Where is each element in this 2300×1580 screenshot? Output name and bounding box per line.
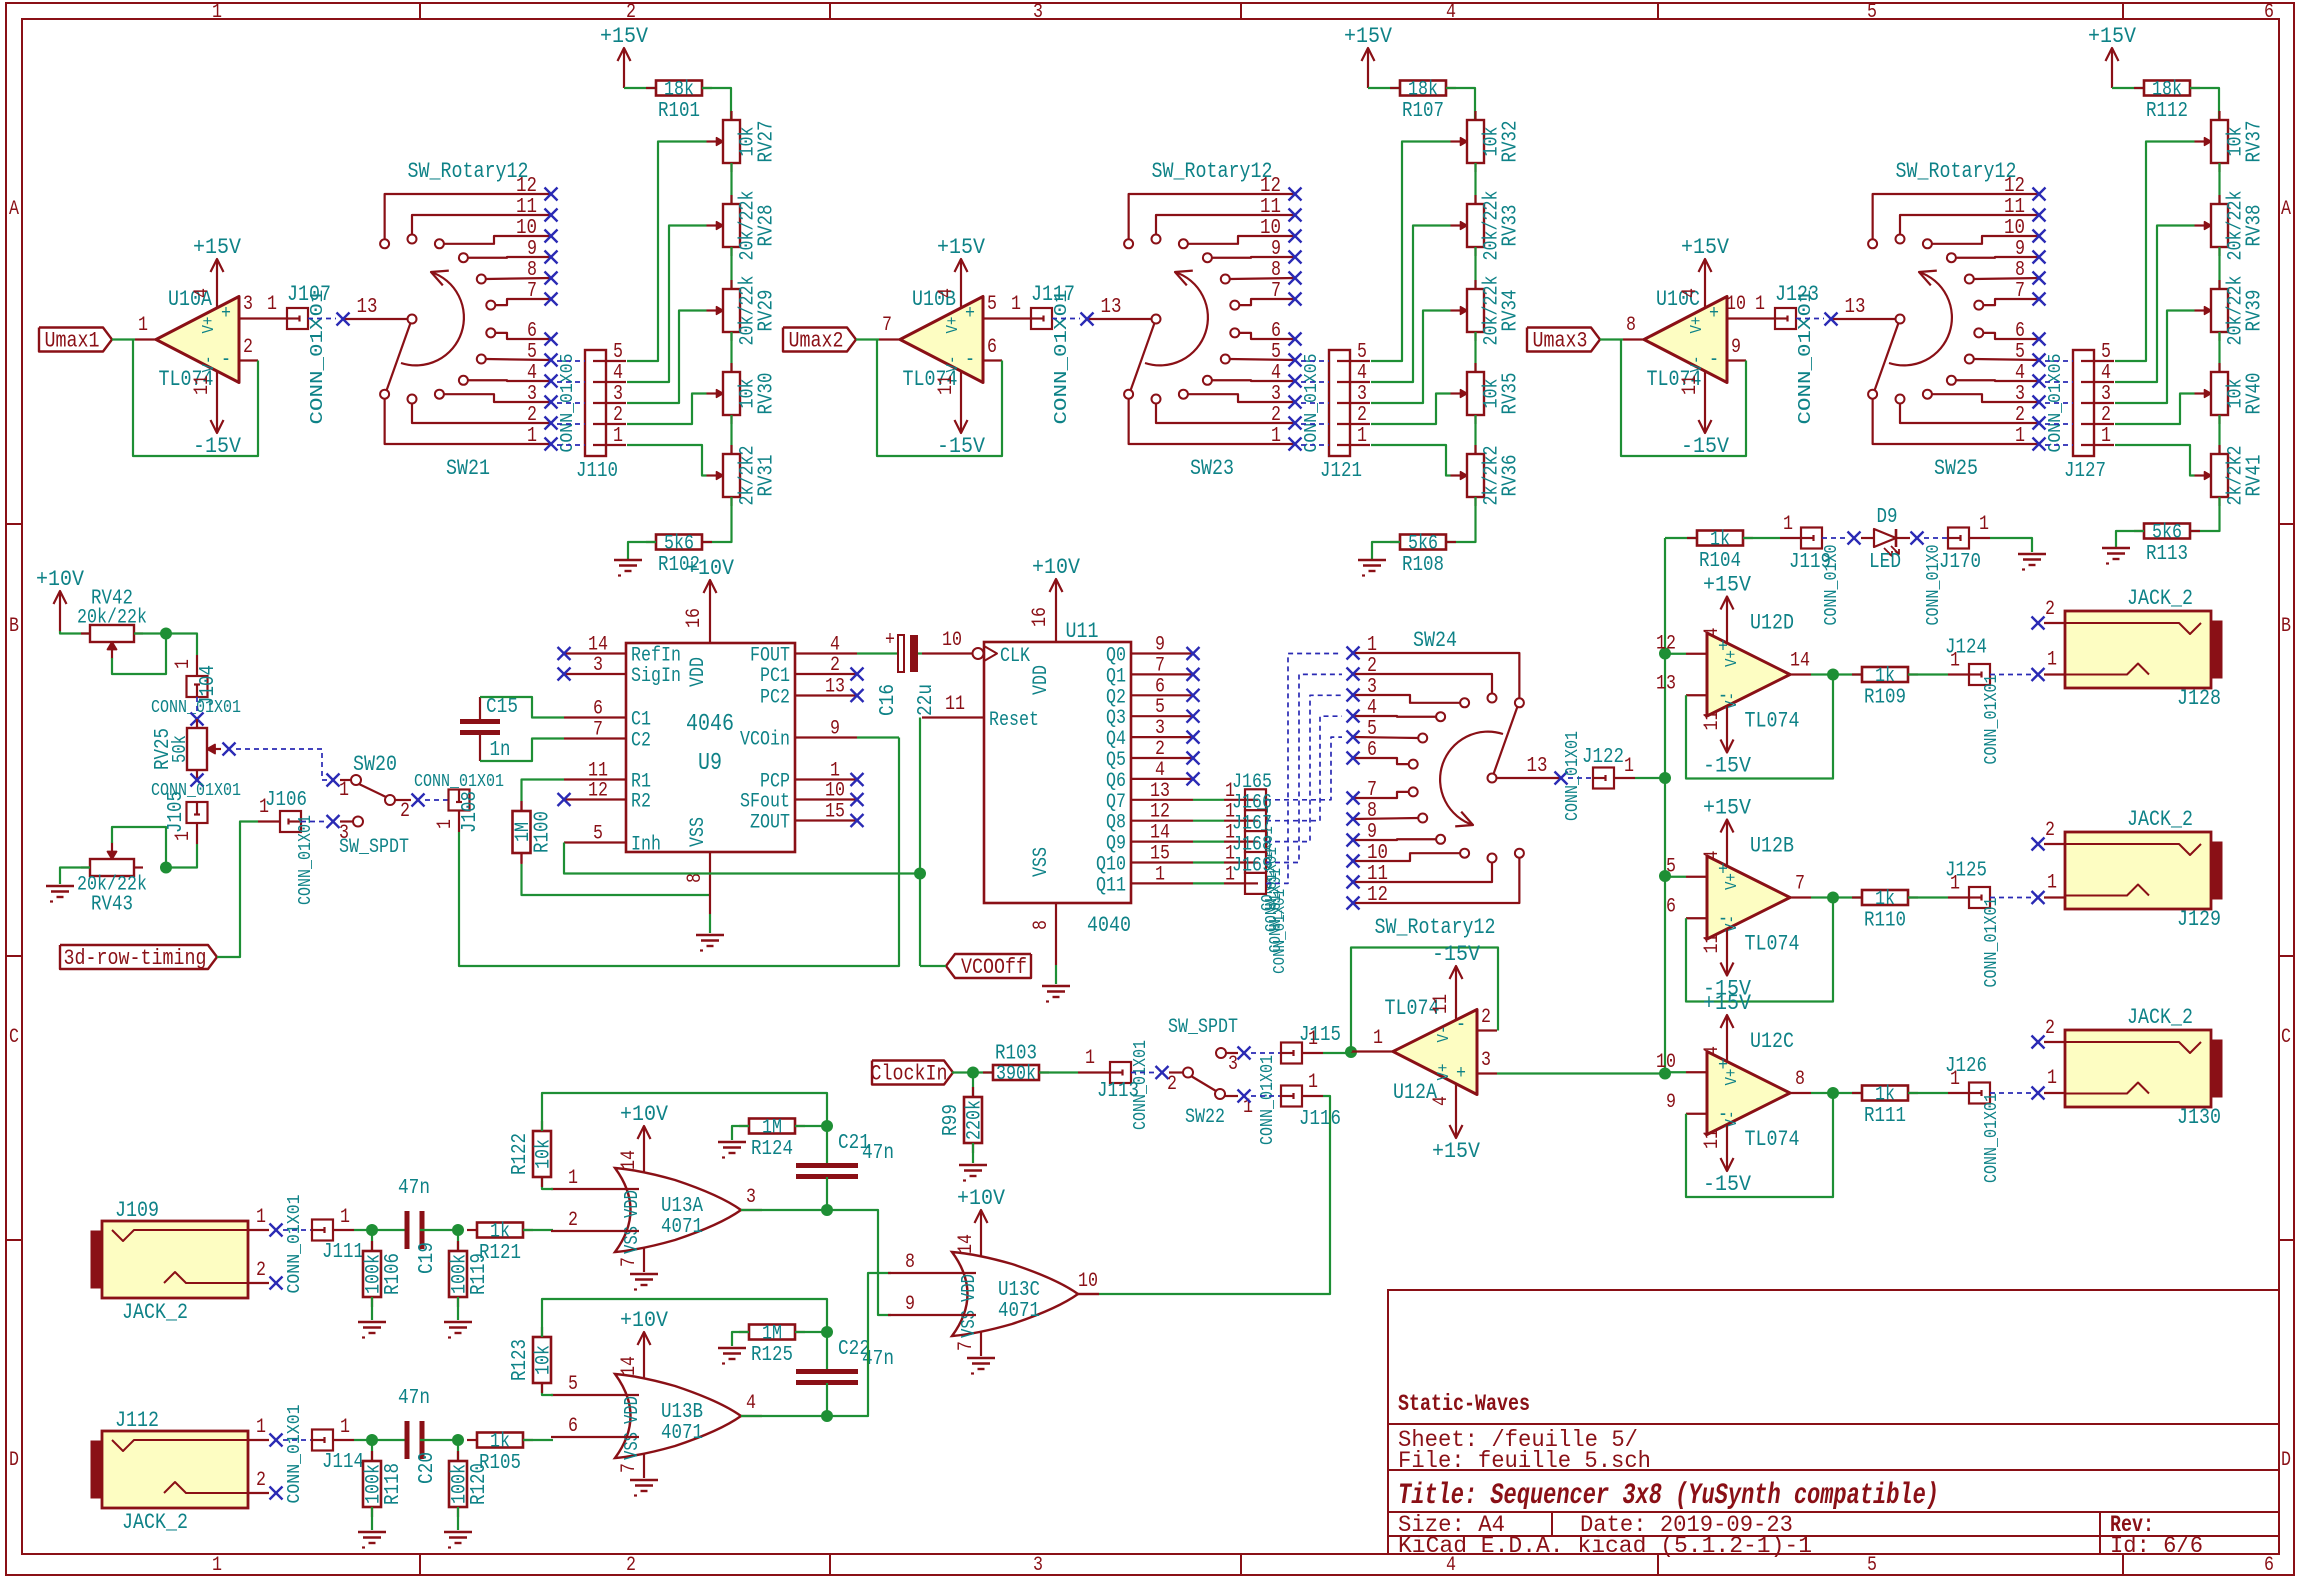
svg-text:SigIn: SigIn	[631, 665, 681, 688]
svg-text:R109: R109	[1864, 687, 1906, 710]
wire VSS to ground	[709, 914, 711, 933]
wire R125 to C22	[795, 1331, 827, 1333]
svg-text:+15V: +15V	[600, 24, 649, 49]
U11 pin Q5	[1131, 757, 1193, 759]
svg-text:3: 3	[613, 383, 623, 406]
hierarchical label Umax1	[39, 328, 112, 352]
svg-text:C20: C20	[416, 1452, 439, 1484]
svg-text:5: 5	[987, 293, 997, 316]
svg-text:7: 7	[1155, 654, 1165, 677]
svg-text:JACK_2: JACK_2	[2127, 807, 2193, 832]
svg-text:C22: C22	[838, 1338, 870, 1361]
svg-text:Q4: Q4	[1106, 728, 1126, 751]
svg-text:Q3: Q3	[1106, 707, 1126, 730]
svg-text:4: 4	[1701, 628, 1724, 638]
connector J121 CONN_01X05	[1329, 350, 1350, 456]
svg-text:Q7: Q7	[1106, 791, 1126, 814]
svg-text:SW21: SW21	[446, 456, 490, 481]
SW25 pin 5 no-connect	[2033, 354, 2046, 367]
svg-text:1: 1	[2015, 425, 2025, 448]
svg-text:J106: J106	[265, 789, 307, 812]
svg-text:1: 1	[1783, 513, 1793, 536]
svg-text:+10V: +10V	[686, 556, 735, 581]
SW24 pin 2 no-connect	[1347, 668, 1360, 681]
svg-text:JACK_2: JACK_2	[122, 1300, 188, 1325]
svg-text:R107: R107	[1402, 100, 1444, 123]
svg-text:2: 2	[527, 404, 537, 427]
wire C22 to output	[826, 1383, 828, 1416]
no-connect RV25 wiper	[223, 743, 236, 756]
SW25 rotation arc arrow	[1889, 272, 1952, 365]
svg-text:4: 4	[1367, 697, 1377, 720]
SW22 pin 1 lower throw	[1225, 1095, 1238, 1097]
U12B feedback loop	[1811, 896, 1833, 898]
connector J126 CONN_01X01	[1969, 1083, 1990, 1104]
svg-text:RV37: RV37	[2244, 121, 2267, 163]
U12A pin 2 feedback	[1477, 1029, 1497, 1031]
svg-text:U12B: U12B	[1750, 834, 1794, 859]
wire RV43 wiper loop	[112, 827, 166, 868]
U11 pin 8 VSS to ground	[1055, 903, 1057, 965]
potentiometer RV35 10k	[1474, 363, 1476, 372]
rotary switch SW25 contacts	[1868, 390, 1877, 399]
SW23 pin 6 no-connect	[1289, 333, 1302, 346]
svg-text:Q9: Q9	[1106, 833, 1126, 856]
connector J127 CONN_01X05	[2073, 350, 2094, 456]
svg-text:3: 3	[1481, 1049, 1491, 1072]
U9 pin 8 VSS	[709, 852, 711, 914]
U11 pin Q6	[1131, 778, 1193, 780]
svg-text:J127: J127	[2064, 460, 2106, 483]
connector J124 CONN_01X01	[1969, 664, 1990, 685]
wire op-amp bus vertical	[1664, 538, 1666, 1074]
potentiometer RV36 2k/2k2	[1474, 445, 1476, 454]
svg-text:C: C	[2281, 1026, 2291, 1049]
svg-text:1: 1	[1011, 293, 1021, 316]
svg-text:CONN_01X01: CONN_01X01	[151, 698, 241, 718]
resistor R106 100k	[371, 1230, 373, 1251]
potentiometer RV43 20k/22k	[81, 866, 90, 868]
ground	[614, 559, 642, 561]
svg-text:1M: 1M	[762, 1323, 782, 1346]
SW21 pin 1 no-connect	[545, 438, 558, 451]
svg-text:VDD: VDD	[687, 657, 710, 687]
svg-text:1: 1	[172, 659, 195, 669]
ground U9	[696, 934, 724, 936]
ground R124	[718, 1141, 746, 1143]
rotary switch SW23 contacts	[1124, 390, 1133, 399]
resistor R100 1M	[522, 780, 565, 802]
svg-text:J170: J170	[1939, 551, 1981, 574]
resistor R111 1k	[1833, 1092, 1862, 1094]
wire pot chain segment	[2218, 247, 2220, 289]
svg-text:3: 3	[1367, 676, 1377, 699]
U12B output pin 7	[1790, 896, 1811, 898]
svg-text:12: 12	[1150, 801, 1170, 824]
connector J115 CONN_01X01	[1251, 1052, 1281, 1054]
svg-text:10: 10	[825, 780, 845, 803]
svg-text:5k6: 5k6	[2152, 522, 2182, 545]
U10C input pin 8	[1623, 338, 1644, 340]
diode D9 LED	[1822, 537, 1847, 539]
svg-text:C15: C15	[486, 696, 518, 719]
svg-text:18k: 18k	[1408, 79, 1438, 102]
potentiometer RV25 50k	[187, 728, 207, 770]
SW21 common pivot pin 13	[408, 315, 417, 324]
U13A input pin 1	[551, 1188, 639, 1190]
wires J-pins to pot wipers	[1371, 142, 1451, 362]
J130 pin 1	[2044, 1092, 2065, 1094]
svg-text:4: 4	[2015, 362, 2025, 385]
wires J-pins to pot wipers	[627, 142, 707, 362]
svg-text:7: 7	[1795, 873, 1805, 896]
svg-text:6: 6	[1155, 675, 1165, 698]
SW23 pin 8 no-connect	[1289, 272, 1302, 285]
U13A output pin 3	[741, 1209, 762, 1211]
svg-text:SW24: SW24	[1413, 628, 1457, 653]
svg-text:3d-row-timing: 3d-row-timing	[64, 946, 207, 971]
svg-text:J130: J130	[2177, 1105, 2221, 1130]
svg-text:5: 5	[1867, 1, 1877, 24]
svg-text:2: 2	[613, 404, 623, 427]
svg-text:4: 4	[1679, 288, 1702, 298]
connector J104 CONN_01X01	[196, 655, 198, 676]
op-amp U12A (TL074)	[1393, 1010, 1477, 1095]
svg-text:D9: D9	[1877, 506, 1898, 529]
svg-text:220k: 220k	[964, 1100, 987, 1140]
svg-text:J115: J115	[1299, 1024, 1341, 1047]
svg-text:J169: J169	[1232, 854, 1272, 877]
wire U13A output to U13C pin 9	[741, 1210, 891, 1315]
op-amp U10C (TL074)	[1644, 297, 1727, 383]
SW25 pin 10 no-connect	[2033, 230, 2046, 243]
svg-text:VSS: VSS	[1030, 847, 1053, 877]
svg-text:SW_SPDT: SW_SPDT	[1168, 1016, 1238, 1039]
SW23 pin 7 no-connect	[1289, 293, 1302, 306]
svg-text:11: 11	[191, 375, 214, 395]
svg-text:R108: R108	[1402, 554, 1444, 577]
wire pot chain segment	[730, 163, 732, 204]
svg-text:9: 9	[1155, 634, 1165, 657]
svg-text:4: 4	[1701, 851, 1724, 861]
svg-text:J112: J112	[115, 1408, 159, 1433]
SW24 pin 3 no-connect	[1347, 689, 1360, 702]
svg-text:V+: V+	[944, 317, 963, 334]
svg-text:Q8: Q8	[1106, 812, 1126, 835]
power +15V for R101	[623, 48, 625, 88]
SW25 pin 9 no-connect	[2033, 251, 2046, 264]
wire VCOin to vertical	[857, 736, 899, 738]
svg-text:6: 6	[987, 336, 997, 359]
svg-text:CONN_01X01: CONN_01X01	[1131, 1040, 1151, 1130]
svg-text:J167: J167	[1232, 813, 1272, 836]
svg-text:R118: R118	[382, 1463, 405, 1505]
wire R111 to J126	[1908, 1092, 1948, 1094]
svg-text:Q0: Q0	[1106, 645, 1126, 668]
svg-text:5k6: 5k6	[664, 533, 694, 556]
svg-text:1: 1	[527, 425, 537, 448]
connector J165 CONN_01X01	[1193, 799, 1224, 801]
svg-text:-15V: -15V	[1703, 1172, 1752, 1197]
svg-text:2: 2	[626, 1554, 636, 1577]
svg-text:2: 2	[2045, 598, 2055, 621]
svg-text:J108: J108	[459, 791, 482, 833]
wire pot chain segment	[2218, 163, 2220, 204]
svg-text:CONN_01X01: CONN_01X01	[1982, 898, 2002, 988]
svg-text:1: 1	[1155, 863, 1165, 886]
svg-text:+: +	[965, 302, 975, 324]
potentiometer RV39 20k/22k	[2218, 280, 2220, 289]
U11 pin Q3	[1131, 715, 1193, 717]
svg-text:6: 6	[593, 698, 603, 721]
svg-text:4: 4	[935, 288, 958, 298]
svg-text:12: 12	[588, 780, 608, 803]
SW21 pin 6 no-connect	[545, 333, 558, 346]
resistor R118 100k	[371, 1440, 373, 1461]
U12C input pin 10	[1686, 1071, 1707, 1073]
potentiometer RV31 2k/2k2	[730, 445, 732, 454]
U13B input pin 6	[551, 1436, 639, 1438]
dashed link J169 to SW24 contact 1	[1266, 654, 1342, 884]
svg-text:9: 9	[1666, 1091, 1676, 1114]
svg-text:2: 2	[1357, 404, 1367, 427]
connector J114 CONN_01X01	[283, 1439, 312, 1441]
U13B input pin 5	[551, 1394, 639, 1396]
U12B power pin 4 +15V	[1726, 846, 1728, 866]
wire Umax1 to op-amp input	[112, 338, 135, 340]
U13B power pin 7 VSS	[643, 1453, 645, 1478]
svg-text:J110: J110	[576, 460, 618, 483]
svg-text:-: -	[965, 349, 975, 372]
resistor R120 100k	[457, 1440, 459, 1461]
svg-text:VDD: VDD	[621, 1396, 643, 1424]
SW21 pin 5 no-connect	[545, 354, 558, 367]
dashed link J107 to SW21	[308, 318, 336, 320]
svg-text:SW_Rotary12: SW_Rotary12	[1152, 159, 1273, 184]
svg-text:RV43: RV43	[91, 894, 133, 917]
svg-text:SW_SPDT: SW_SPDT	[339, 836, 409, 859]
dashed links SW23 to J121	[1301, 360, 1329, 362]
U11 pin Q1	[1131, 673, 1193, 675]
svg-text:VDD: VDD	[1030, 665, 1053, 695]
svg-text:+15V: +15V	[1681, 235, 1730, 260]
svg-text:14: 14	[1150, 822, 1170, 845]
svg-text:RV40: RV40	[2244, 373, 2267, 415]
wire U13C output	[1078, 1293, 1099, 1295]
svg-text:RV30: RV30	[756, 373, 779, 415]
svg-text:CONN_01X01: CONN_01X01	[1271, 889, 1290, 974]
svg-text:4: 4	[613, 362, 623, 385]
svg-text:9: 9	[1731, 336, 1741, 359]
wire C22 top	[826, 1332, 828, 1371]
svg-text:Umax3: Umax3	[1533, 329, 1588, 354]
svg-text:390k: 390k	[996, 1063, 1036, 1086]
svg-text:U12C: U12C	[1750, 1029, 1794, 1054]
svg-text:V+: V+	[1723, 1069, 1742, 1086]
svg-text:3: 3	[1357, 383, 1367, 406]
U10B power pin 11 -15V	[960, 371, 962, 393]
svg-text:J166: J166	[1232, 792, 1272, 815]
svg-text:SW25: SW25	[1934, 456, 1978, 481]
svg-text:Umax2: Umax2	[789, 329, 844, 354]
svg-text:C19: C19	[416, 1242, 439, 1274]
svg-text:22u: 22u	[915, 684, 938, 716]
connector J167 CONN_01X01	[1193, 840, 1224, 842]
svg-text:VSS: VSS	[687, 817, 710, 847]
connector J111 CONN_01X01	[283, 1229, 312, 1231]
svg-text:1: 1	[1085, 1047, 1095, 1070]
svg-text:9: 9	[527, 238, 537, 261]
svg-text:4: 4	[191, 288, 214, 298]
svg-text:R103: R103	[995, 1043, 1037, 1066]
svg-text:4: 4	[1155, 759, 1165, 782]
svg-text:-15V: -15V	[1432, 942, 1481, 967]
svg-text:3: 3	[1271, 383, 1281, 406]
wire U10A output to J107	[260, 317, 287, 319]
svg-text:14: 14	[618, 1356, 641, 1376]
svg-text:U13A: U13A	[661, 1195, 703, 1218]
svg-text:6: 6	[527, 320, 537, 343]
svg-text:VDD: VDD	[621, 1190, 643, 1218]
svg-text:1: 1	[1624, 755, 1634, 778]
wire U9 Inh loop	[564, 843, 920, 874]
U9 pin 13 PC2	[795, 694, 857, 696]
svg-text:11: 11	[1367, 863, 1388, 886]
U10A power pin 11 -15V	[216, 371, 218, 393]
SW21 pin 8 no-connect	[545, 272, 558, 285]
svg-text:14: 14	[1790, 650, 1810, 673]
svg-text:CONN_01X01: CONN_01X01	[308, 290, 328, 425]
SW21 pin 10 no-connect	[545, 230, 558, 243]
U12C feedback loop	[1811, 1092, 1833, 1094]
U11 pin 11 Reset	[922, 716, 984, 718]
svg-text:6: 6	[1367, 739, 1377, 762]
svg-text:2: 2	[2045, 819, 2055, 842]
svg-text:2: 2	[400, 800, 410, 823]
svg-text:R113: R113	[2146, 543, 2188, 566]
capacitor C20 47n	[405, 1421, 410, 1459]
svg-text:4046: 4046	[686, 711, 734, 738]
potentiometer RV37 10k	[2218, 111, 2220, 120]
svg-text:6: 6	[2015, 320, 2025, 343]
wire pot chain segment	[1474, 247, 1476, 289]
SW24 pin 5 no-connect	[1347, 731, 1360, 744]
svg-text:13: 13	[1101, 296, 1122, 319]
svg-text:R99: R99	[940, 1104, 963, 1136]
svg-text:+15V: +15V	[1703, 573, 1752, 598]
svg-text:+15V: +15V	[937, 235, 986, 260]
U12C power pin 11 -15V	[1726, 1125, 1728, 1145]
svg-text:J122: J122	[1582, 746, 1624, 769]
SW22 pin 3 upper throw	[1216, 1048, 1226, 1058]
svg-text:1: 1	[267, 293, 277, 316]
svg-text:A: A	[9, 198, 19, 221]
svg-text:CONN_01X01: CONN_01X01	[1052, 290, 1072, 425]
connector J110 CONN_01X05	[585, 350, 606, 456]
svg-text:2: 2	[2015, 404, 2025, 427]
svg-text:1k: 1k	[1875, 888, 1895, 911]
svg-text:10k: 10k	[533, 1139, 556, 1169]
svg-text:2: 2	[1481, 1006, 1491, 1029]
SW24 common pivot pin 13	[1488, 774, 1497, 783]
svg-text:TL074: TL074	[1745, 709, 1800, 734]
svg-text:5: 5	[2101, 341, 2111, 364]
svg-text:+: +	[885, 629, 895, 652]
wire C20 to R105	[420, 1439, 455, 1441]
svg-text:10: 10	[1656, 1051, 1676, 1074]
SW23 pin 2 no-connect	[1289, 417, 1302, 430]
potentiometer RV30 10k	[730, 363, 732, 372]
no-connect RV25 top	[191, 713, 204, 726]
svg-text:5: 5	[568, 1373, 578, 1396]
U9 pin 9 VCOin	[795, 736, 857, 738]
svg-text:C: C	[9, 1026, 19, 1049]
svg-text:R100: R100	[532, 811, 555, 853]
resistor R103 390k	[983, 1071, 993, 1073]
svg-text:V+: V+	[200, 317, 219, 334]
svg-text:V-: V-	[1688, 356, 1707, 373]
dashed link J125 to jack	[1990, 897, 2032, 899]
wire U13B output to U13C pin 8	[741, 1273, 891, 1416]
U10B pin 5	[983, 317, 1004, 319]
svg-text:10: 10	[516, 217, 537, 240]
dashed link J166 to SW24 contact 4	[1266, 716, 1342, 821]
svg-text:V-: V-	[1723, 692, 1742, 709]
wire C15 bottom to U9 C2	[479, 733, 481, 762]
svg-text:8: 8	[1367, 800, 1377, 823]
svg-text:4071: 4071	[998, 1300, 1040, 1323]
wire J108 to VCOin net	[459, 738, 899, 967]
svg-text:Q5: Q5	[1106, 749, 1126, 772]
potentiometer RV34 20k/22k	[1474, 280, 1476, 289]
U12A feedback loop wire	[1351, 948, 1498, 1053]
resistor R109 1k	[1833, 673, 1862, 675]
svg-text:RV27: RV27	[756, 121, 779, 163]
svg-text:4: 4	[746, 1392, 756, 1415]
svg-text:1: 1	[172, 831, 195, 841]
svg-text:R123: R123	[509, 1339, 532, 1381]
svg-text:+15V: +15V	[1703, 796, 1752, 821]
svg-text:47n: 47n	[398, 1177, 430, 1200]
svg-text:1: 1	[138, 314, 148, 337]
svg-text:2: 2	[1271, 404, 1281, 427]
resistor R119 100k	[457, 1230, 459, 1251]
U13A power pin 7 VSS	[643, 1247, 645, 1272]
svg-text:1: 1	[434, 819, 457, 829]
svg-text:4: 4	[527, 362, 537, 385]
svg-text:-15V: -15V	[1703, 754, 1752, 779]
svg-text:11: 11	[1260, 196, 1281, 219]
U9 pin 7 C2	[564, 737, 626, 739]
SW24 pin 8 no-connect	[1347, 813, 1360, 826]
wire pot chain segment	[730, 415, 732, 454]
svg-text:J114: J114	[322, 1451, 364, 1474]
svg-text:7: 7	[1271, 280, 1281, 303]
svg-text:R122: R122	[509, 1133, 532, 1175]
wire R113 to ground	[2116, 531, 2144, 548]
svg-text:13: 13	[1527, 755, 1548, 778]
svg-text:C2: C2	[631, 730, 651, 753]
svg-text:RV34: RV34	[1500, 290, 1523, 332]
svg-text:V+: V+	[1688, 317, 1707, 334]
SW21 pin 9 no-connect	[545, 251, 558, 264]
svg-text:R110: R110	[1864, 910, 1906, 933]
potentiometer RV32 10k	[1474, 111, 1476, 120]
svg-text:V-: V-	[1723, 915, 1742, 932]
feedback wire U10B	[877, 340, 1002, 457]
U12C inverting pin 9	[1686, 1113, 1707, 1115]
svg-text:5: 5	[613, 341, 623, 364]
